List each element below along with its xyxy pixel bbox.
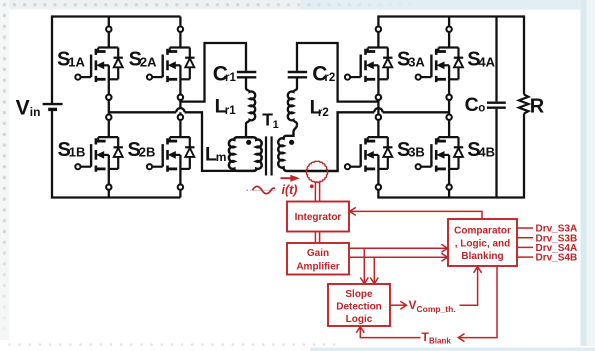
node S1B drain: [106, 115, 111, 120]
wire S2B source to bottom rail: [179, 190, 181, 198]
node S4A source: [446, 95, 451, 100]
capacitor Co rail upper: [495, 17, 497, 102]
wire integrator to gain amplifier: [315, 232, 319, 244]
block Comparator Logic and Blanking: [448, 219, 517, 266]
node leg2 top: [178, 27, 183, 32]
svg-text:R: R: [530, 95, 545, 117]
node S4B drain: [446, 115, 451, 120]
svg-text:r1: r1: [225, 72, 236, 84]
wire S4A source: [448, 79, 450, 94]
node leg1 top: [106, 27, 111, 32]
svg-text:Slope: Slope: [345, 289, 373, 300]
wire comparator output Drv_S3B: [517, 237, 533, 239]
transformer T1 secondary winding and output wire to leg4: [278, 112, 449, 171]
svg-text:2A: 2A: [140, 54, 157, 69]
svg-text:4B: 4B: [478, 145, 495, 160]
capacitor Cr2: [288, 72, 307, 77]
wire comparator to TBlank: [459, 266, 497, 338]
wire leg2 drain lead: [179, 17, 181, 27]
svg-text:Detection: Detection: [336, 301, 382, 312]
svg-text:3A: 3A: [408, 54, 425, 69]
wire S3B source: [377, 169, 379, 185]
transistor S1A: [75, 48, 123, 83]
wire S1B source to bottom rail: [108, 190, 110, 198]
inductor Lr2: [288, 78, 297, 125]
resistor R: [519, 95, 529, 114]
block Integrator: [287, 202, 349, 232]
waveform sine symbol: [250, 189, 277, 191]
wire leg1 to S1B: [108, 120, 110, 137]
transformer T1 core: [266, 136, 272, 175]
svg-text:Blanking: Blanking: [461, 251, 503, 262]
wire node B to transformer primary bottom: [109, 112, 237, 171]
wire S3A source: [377, 79, 379, 94]
wire drop 1 to slope detection: [363, 248, 365, 283]
wire right rail lower and right-bridge bottom rail: [378, 114, 524, 198]
wire S4B source to bottom rail: [448, 190, 450, 198]
transistor S3B: [345, 137, 393, 172]
wire leg3 to S3B: [377, 120, 379, 137]
inductor Lm and transformer T1 primary winding: [229, 137, 262, 171]
node S2B source: [178, 184, 183, 189]
wire leg4 midpoint: [448, 100, 450, 115]
wire leg2 midpoint: [179, 100, 181, 115]
transistor S1B: [75, 137, 123, 172]
node S1A source: [106, 95, 111, 100]
svg-text:Blank: Blank: [429, 337, 451, 346]
node leg3 top: [376, 27, 381, 32]
svg-text:Logic: Logic: [346, 314, 373, 325]
node T1 primary polarity dot: [246, 140, 251, 145]
wire left-bridge top rail and upper left rail: [52, 17, 180, 105]
wire node A to resonant branch Cr1: [180, 43, 246, 102]
capacitor Cr1: [237, 72, 256, 77]
block Slope Detection Logic: [328, 284, 390, 326]
wire comparator feedback to integrator: [350, 211, 482, 219]
svg-text:r2: r2: [318, 107, 329, 119]
svg-text:i(t): i(t): [282, 183, 298, 197]
wire leg4 to S4B: [448, 120, 450, 137]
node T1 secondary polarity dot: [289, 140, 294, 145]
svg-text:1: 1: [273, 119, 279, 131]
wire comparator output Drv_S3A: [517, 227, 533, 229]
svg-text:Drv_S4B: Drv_S4B: [536, 253, 578, 264]
wire S2B source: [179, 169, 181, 185]
node S2A source: [178, 95, 183, 100]
battery Vin plate positive: [43, 103, 63, 105]
transistor S4B: [416, 137, 464, 172]
battery Vin plate negative: [48, 108, 57, 111]
node S3B drain: [376, 115, 381, 120]
node S2B drain: [178, 115, 183, 120]
svg-text:Amplifier: Amplifier: [296, 262, 339, 273]
transistor S4A: [416, 48, 464, 83]
wire leg4 drain lead: [448, 17, 450, 27]
wire left-bridge bottom rail and lower left rail: [52, 109, 180, 197]
wire leg3 midpoint: [377, 100, 379, 115]
wire leg2 to S2B: [179, 120, 181, 137]
wire S1B source: [108, 169, 110, 185]
block Gain Amplifier: [287, 243, 349, 275]
svg-text:1A: 1A: [68, 54, 85, 69]
capacitor Co: [487, 103, 506, 108]
svg-text:Comp_th.: Comp_th.: [417, 304, 456, 314]
svg-text:V: V: [16, 97, 30, 120]
current sensor on secondary output wire: [306, 161, 327, 182]
svg-text:Gain: Gain: [307, 248, 329, 259]
svg-text:, Logic, and: , Logic, and: [455, 238, 511, 249]
capacitor Co rail lower: [495, 109, 497, 198]
svg-text:V: V: [409, 298, 417, 312]
svg-text:m: m: [216, 150, 227, 164]
wire comparator output Drv_S4A: [517, 246, 533, 248]
wire sensor leads to integrator: [315, 181, 319, 201]
wire TBlank to slope detection bottom: [360, 327, 420, 337]
wire VComp_th to comparator bottom: [460, 267, 478, 305]
wire right-bridge top rail and right rail upper: [378, 17, 524, 95]
wire leg2 to S2A: [179, 32, 181, 48]
wire leg1 midpoint: [108, 100, 110, 115]
wire leg3 to S3A: [377, 32, 379, 48]
svg-text:4A: 4A: [478, 54, 495, 69]
wire hop over leg2: [176, 108, 184, 112]
svg-text:Comparator: Comparator: [454, 226, 511, 237]
svg-text:Integrator: Integrator: [295, 212, 342, 223]
node S3B source: [376, 184, 381, 189]
wire leg3 node to resonant branch Cr2: [297, 43, 378, 102]
wire hop over leg3: [374, 108, 382, 112]
node leg4 top: [446, 27, 451, 32]
wire drop 2 to slope detection: [373, 257, 375, 283]
node S1B source: [106, 184, 111, 189]
svg-text:in: in: [30, 105, 41, 119]
wire leg4 to S4A: [448, 32, 450, 48]
svg-text:r2: r2: [324, 72, 335, 84]
wire leg1 drain lead: [108, 17, 110, 27]
arrow current direction i(t): [281, 177, 292, 179]
wire slope detection output VComp_th: [390, 304, 406, 306]
wire S2A source: [179, 79, 181, 94]
transistor S2B: [147, 137, 195, 172]
wire S4B source: [448, 169, 450, 185]
node S3A source: [376, 95, 381, 100]
svg-text:3B: 3B: [408, 145, 425, 160]
svg-text:o: o: [478, 103, 485, 115]
svg-text:r1: r1: [225, 105, 236, 117]
transistor S2A: [147, 48, 195, 83]
wire S1A source: [108, 79, 110, 94]
wire gain amplifier output 2 to comparator: [349, 256, 447, 258]
node S4B source: [446, 184, 451, 189]
inductor Lr1: [246, 78, 255, 137]
wire leg1 to S1A: [108, 32, 110, 48]
wire gain amplifier output 1 to comparator: [349, 247, 447, 249]
wire comparator output Drv_S4B: [517, 256, 533, 258]
svg-text:1B: 1B: [69, 145, 86, 160]
svg-text:2B: 2B: [139, 145, 156, 160]
transistor S3A: [345, 48, 393, 83]
node sensor polarity dot: [310, 184, 314, 188]
svg-text:C: C: [465, 94, 479, 116]
